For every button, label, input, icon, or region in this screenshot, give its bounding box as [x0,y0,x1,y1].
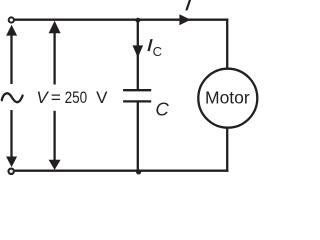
label V = 250 V [36,88,108,107]
arrowhead source upper (points up to terminal) [6,25,17,36]
wire top (top rail from source terminal to right corner) [14,19,229,21]
arrowhead voltage lower [49,160,61,170]
voltage arrow V lower segment [53,111,55,163]
voltage arrow V upper segment [53,27,55,85]
svg-text:250: 250 [65,88,88,107]
wire capacitor branch lower [137,103,139,171]
svg-text:=: = [51,88,61,107]
wire right lower (motor down to bottom rail) [226,128,228,172]
arrowhead source lower (points down to terminal) [6,157,17,168]
wire right upper (corner down to motor) [226,19,228,70]
terminal node top-left [9,17,14,22]
wire source upper segment [10,31,12,84]
current arrow I (arrowhead on top rail) [179,14,190,25]
svg-text:Motor: Motor [205,87,250,107]
svg-text:V: V [36,88,49,107]
current arrow IC (arrowhead on capacitor branch) [133,45,144,57]
ac source (sine symbol) [2,93,23,102]
node junction top (capacitor branch tap) [135,18,140,23]
svg-text:C: C [155,99,169,120]
wire capacitor branch upper [137,20,139,89]
node junction bottom (capacitor branch tap) [136,169,141,174]
label I [185,0,191,10]
label IC [147,39,152,51]
svg-text:C: C [153,44,162,59]
capacitor C [123,90,151,101]
wire source lower segment [10,110,12,160]
wire bottom (bottom rail) [15,170,229,172]
motor M1 [198,69,257,128]
svg-text:V: V [96,88,108,107]
arrowhead voltage upper [49,21,61,34]
terminal node bottom-left [9,169,14,174]
